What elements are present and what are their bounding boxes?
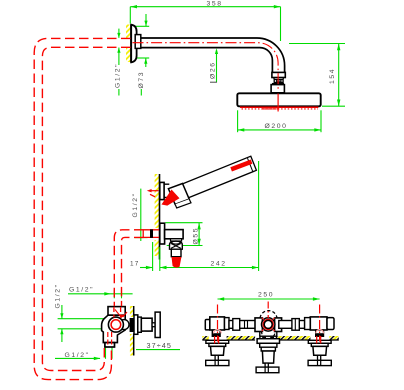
hand shower head (rotated square) <box>168 184 189 205</box>
right red connection arc <box>316 330 324 334</box>
center leg plate3 <box>261 347 275 351</box>
svg-text:Ø200: Ø200 <box>265 123 288 130</box>
svg-text:Ø26: Ø26 <box>210 61 217 79</box>
center leg plate2 <box>260 343 277 347</box>
valve red ring <box>111 320 121 330</box>
bar union lines <box>245 321 248 329</box>
left branch black band <box>212 333 221 336</box>
label G1/2" lower-left with leader <box>55 346 112 360</box>
hand shower red spray cone <box>162 190 180 206</box>
valve top inlet <box>108 307 125 316</box>
svg-text:242: 242 <box>211 261 227 268</box>
bar tube left <box>229 321 256 329</box>
right handle divider lines <box>318 360 321 365</box>
bar right union <box>292 319 299 331</box>
svg-text:250: 250 <box>258 291 274 298</box>
front view red centerline center <box>267 302 269 319</box>
shower head nozzle dots (red) <box>242 108 319 110</box>
left handle divider lines <box>215 360 218 365</box>
wall middle line <box>159 174 161 260</box>
arm red centerline <box>133 43 279 91</box>
shower head <box>237 93 320 106</box>
right leg cup <box>313 346 327 355</box>
wall middle (hand shower wall) hatch <box>155 174 160 256</box>
center housing neck <box>260 332 277 337</box>
right branch black band <box>315 333 324 336</box>
svg-text:G1/2": G1/2" <box>114 63 121 88</box>
red V arrow inside valve <box>115 310 127 319</box>
center lower dashed arc <box>261 331 275 338</box>
svg-text:G1/2": G1/2" <box>132 192 139 217</box>
hand shower handle <box>176 156 256 200</box>
svg-text:G1/2": G1/2" <box>54 283 61 308</box>
center housing left block <box>255 318 262 332</box>
svg-text:37÷45: 37÷45 <box>147 341 172 350</box>
bar right T-body <box>310 317 327 330</box>
left leg cup <box>211 346 225 355</box>
connector nut 2 <box>274 80 283 83</box>
shower arm wall flange <box>131 25 136 63</box>
valve cartridge <box>141 318 152 331</box>
center leg flange <box>257 339 279 344</box>
shower head denser nozzle band <box>262 108 279 110</box>
center handle divider lines <box>265 367 268 373</box>
valve bottom outlet stub <box>105 343 115 347</box>
shower head red face line <box>240 106 318 108</box>
wall top (shower arm wall) hatch <box>126 25 131 63</box>
center leg T-handle <box>256 367 279 373</box>
svg-text:G1/2": G1/2" <box>69 286 94 293</box>
wall diverter line <box>133 306 135 356</box>
center leg cup <box>262 351 274 363</box>
connector swivel block <box>271 85 284 93</box>
outlet body <box>165 230 184 239</box>
label 37÷45 with underline <box>136 341 180 350</box>
wall top line <box>130 25 132 63</box>
mini dimension at flange <box>135 14 149 67</box>
center red X marks <box>262 318 275 332</box>
label (rotated) Ø26 with leader <box>210 48 219 82</box>
valve flange on wall <box>134 315 138 334</box>
left leg plate2 <box>209 343 226 346</box>
right leg T-handle <box>308 360 331 365</box>
right leg stem <box>318 355 321 360</box>
bar left end cap <box>205 320 210 330</box>
center red ring <box>263 319 273 329</box>
bar left T-body <box>210 317 225 330</box>
label (rotated) G1/2" middle with leader <box>132 189 148 241</box>
outlet red supply stub <box>143 230 160 238</box>
valve stem <box>152 323 155 327</box>
left branch to wall <box>212 330 220 336</box>
right branch to wall <box>316 330 324 336</box>
red flow arrow at bracket <box>147 189 159 197</box>
svg-text:Ø73: Ø73 <box>138 71 145 89</box>
valve bonnet circle <box>108 317 123 332</box>
wire: valve inlet dashes <box>114 307 121 318</box>
connector tiny insert <box>277 80 281 82</box>
dimension G1/2 top flange <box>117 29 120 96</box>
hand shower head cap <box>175 199 191 208</box>
arm-head connector nut 1 <box>272 72 285 77</box>
valve handle bar <box>155 312 160 337</box>
right union line <box>294 319 296 331</box>
outlet lower nut <box>171 239 182 241</box>
valve body <box>102 315 126 342</box>
wire: valve outlet dashes <box>108 332 112 347</box>
svg-text:154: 154 <box>329 68 336 84</box>
center inner circle <box>264 320 272 328</box>
dimension Ø200 <box>238 110 321 132</box>
left leg stem <box>215 355 218 360</box>
left leg flange <box>206 340 229 343</box>
head red centerline <box>277 94 279 112</box>
bar left union <box>233 319 240 331</box>
valve wall sleeve (black) <box>130 318 134 332</box>
front view red centerline left <box>217 305 219 342</box>
outlet swivel <box>170 241 183 249</box>
shower arm collar <box>135 35 141 49</box>
connector flare <box>274 78 284 80</box>
left leg T-handle <box>206 360 229 365</box>
center base screw marks <box>262 337 274 339</box>
center big circle <box>262 318 275 331</box>
swivel cross lines <box>171 244 181 249</box>
bracket stub <box>164 184 169 197</box>
bar tube right <box>279 321 305 329</box>
valve right lobe circle <box>119 320 129 330</box>
outlet red hose <box>172 257 182 268</box>
center base plate <box>260 336 277 339</box>
svg-text:358: 358 <box>207 1 223 8</box>
dimension 358 <box>130 5 280 41</box>
bar left nut <box>225 318 230 330</box>
bar right nut <box>305 318 311 330</box>
handle red band <box>230 160 252 172</box>
dimension 250 <box>218 297 320 300</box>
swivel block line <box>272 83 284 85</box>
wire: riser loop outer <box>34 38 130 379</box>
wall at diverter valve hatch <box>130 306 134 356</box>
dimension Ø55 <box>165 223 202 246</box>
outlet hose connector <box>171 249 181 257</box>
front view red centerline right <box>319 305 321 342</box>
outlet wall plate <box>160 223 165 244</box>
center dome (dashed arc) <box>260 311 277 318</box>
right leg flange <box>308 340 331 343</box>
bar right end cap <box>327 318 334 330</box>
left red connection arc <box>214 330 222 334</box>
swivel top ellipse <box>172 241 180 244</box>
right leg plate2 <box>311 343 328 346</box>
wire: handshower supply outer <box>114 230 143 306</box>
dimension 154 <box>289 44 345 107</box>
wall front-view band (hatched) <box>202 336 338 340</box>
shower arm tube with bend <box>141 38 285 72</box>
center leg stem <box>265 363 268 367</box>
svg-text:Ø55: Ø55 <box>192 227 199 245</box>
valve ring plate <box>138 317 142 332</box>
dimension 17 / 242 <box>140 161 259 271</box>
label G1/2" upper-left with leader <box>68 286 133 298</box>
right leg red supply lines <box>317 336 321 344</box>
wall front-view surface line <box>202 339 338 341</box>
center housing right block <box>275 318 282 332</box>
wire: riser loop inner <box>42 47 130 370</box>
svg-text:17: 17 <box>130 261 140 268</box>
left leg red supply lines <box>215 336 219 344</box>
label (rotated) Ø73 <box>138 71 145 96</box>
dimension G1/2 left of diverter (rotated label) <box>54 283 103 342</box>
handle tip line <box>248 158 253 171</box>
wire: handshower supply inner <box>122 237 144 306</box>
hand shower bracket plate <box>160 182 164 199</box>
outlet stub fitting block <box>150 229 153 238</box>
